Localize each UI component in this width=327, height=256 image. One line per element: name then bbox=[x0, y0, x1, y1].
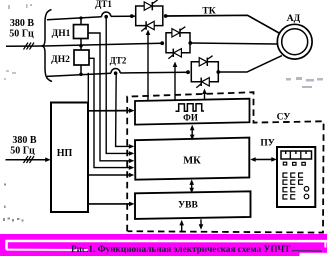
wire NP input bbox=[6, 159, 48, 161]
wire phase C tap to NP bbox=[87, 73, 89, 103]
wire phase C bbox=[47, 73, 111, 76]
brace fan-out bbox=[42, 10, 53, 82]
wire phase B bbox=[44, 43, 162, 46]
wire DT2 output bbox=[116, 73, 131, 146]
motor AD outer bbox=[277, 24, 312, 59]
block DN1 bbox=[74, 25, 89, 39]
block FI bbox=[135, 99, 250, 125]
thyristor T2a bbox=[172, 27, 185, 37]
block NP bbox=[51, 103, 88, 213]
node TK1 left bbox=[130, 14, 134, 18]
thyristor pair TK1 bbox=[136, 6, 163, 26]
control unit SU dashed boundary bbox=[127, 92, 323, 232]
caption banner magenta bbox=[0, 234, 327, 256]
scan noise left middle bbox=[4, 70, 16, 80]
scan noise near motor bbox=[286, 77, 323, 88]
block PU panel bbox=[277, 147, 315, 207]
bus FI to MK double arrow bbox=[191, 127, 193, 139]
node phase B / DN junction bbox=[79, 44, 83, 48]
wire phase A bbox=[47, 17, 102, 20]
label 380 V 50 Hz at NP bbox=[10, 135, 37, 157]
node TK2 left bbox=[160, 41, 164, 45]
wire UVV external down arrow bbox=[200, 219, 202, 226]
node phase A / DN1 junction bbox=[79, 16, 82, 19]
pulse waveform symbol bbox=[176, 104, 205, 112]
wire phase C cont bbox=[120, 71, 188, 74]
thyristor pair TK2 bbox=[166, 33, 190, 53]
PU display segment ticks bbox=[286, 152, 306, 155]
wire NP to MK bbox=[88, 174, 131, 176]
gate wire FI to TK3 bbox=[204, 92, 206, 100]
PU display bbox=[281, 151, 312, 159]
PU keypad bbox=[283, 173, 309, 199]
wire TK2 to motor bbox=[190, 43, 277, 44]
node DT1 dot bbox=[104, 15, 108, 19]
wire TK1 to motor bbox=[166, 15, 280, 33]
node TK3 right bbox=[216, 70, 220, 74]
block DN2 bbox=[74, 50, 89, 65]
bus MK to PU double arrow bbox=[252, 158, 275, 160]
gate wire FI to TK1 bbox=[147, 33, 149, 101]
motor AD inner bbox=[282, 29, 308, 55]
thyristor T3a bbox=[199, 56, 212, 66]
wire NP to FI bbox=[88, 110, 131, 112]
wire DN1 top lead bbox=[80, 18, 82, 25]
current sensor DT1 hump bbox=[102, 12, 111, 17]
wire DN2 output bbox=[89, 58, 131, 167]
thyristor T2b bbox=[168, 49, 181, 59]
node TK2 right bbox=[188, 41, 192, 45]
wire three-phase feeder top bbox=[6, 45, 44, 47]
node phase C / DN2 junction bbox=[79, 73, 83, 77]
wire DN2 bottom lead bbox=[80, 65, 82, 75]
scan noise top-left bbox=[8, 4, 32, 9]
three-phase slash marks top bbox=[24, 43, 35, 50]
wire UVV external up arrow bbox=[181, 222, 183, 231]
thyristor pair TK3 bbox=[191, 62, 218, 82]
gate wire FI to TK2 bbox=[174, 65, 176, 100]
caption text bbox=[71, 245, 290, 255]
wire phase A cont bbox=[111, 15, 136, 17]
current sensor DT2 hump bbox=[111, 69, 120, 74]
wire DN1 bottom lead bbox=[80, 39, 82, 51]
node TK3 left bbox=[186, 70, 190, 74]
thyristor T3b bbox=[196, 78, 209, 88]
block MK bbox=[135, 138, 249, 180]
wire DN1 output bbox=[88, 33, 131, 161]
block UVV bbox=[135, 191, 251, 219]
label 380 V 50 Hz top-left bbox=[9, 18, 34, 40]
bus MK to UVV double arrow bbox=[191, 181, 193, 192]
three-phase slash marks NP input bbox=[24, 156, 35, 163]
scan noise left lower bbox=[3, 184, 24, 222]
wire TK3 to motor bbox=[218, 56, 282, 72]
thyristor T1a bbox=[144, 0, 157, 10]
thyristor T1b bbox=[141, 21, 154, 31]
node DT2 dot bbox=[114, 71, 118, 75]
wire NP to UVV bbox=[88, 203, 131, 205]
PU indicator squares bbox=[283, 162, 305, 165]
wire DT1 output bbox=[106, 17, 131, 154]
node TK1 right bbox=[164, 14, 168, 18]
